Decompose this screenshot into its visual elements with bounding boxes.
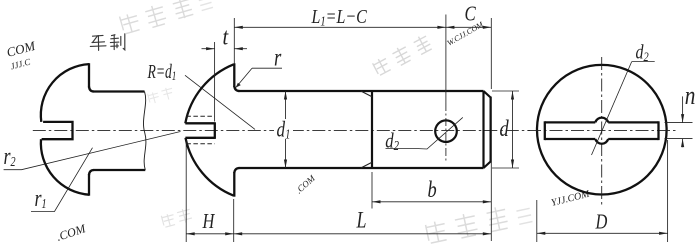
end chamfer bottom slant: [484, 162, 491, 169]
dimension d (right of middle view): [492, 90, 519, 92]
svg-text:L1=L−C: L1=L−C: [311, 5, 368, 29]
dimension b: [371, 172, 373, 209]
middle fillet bottom: [234, 168, 239, 173]
right view slot band bottom: [545, 138, 659, 140]
watermark left edge COM: [5, 38, 41, 72]
svg-text:b: b: [428, 176, 437, 203]
thread runout line: [371, 91, 373, 168]
end face: [490, 97, 492, 163]
left view shank top: [94, 90, 145, 92]
svg-text:t: t: [223, 23, 229, 50]
middle head slot hidden edges (dashed): [186, 115, 214, 117]
main axis centerline (left + middle views): [33, 129, 530, 131]
middle dome arc lower: [186, 138, 234, 196]
left view head flat face: [88, 63, 90, 87]
watermark faint near H: [161, 207, 193, 228]
left view fillet top: [89, 87, 94, 92]
dimension L: [234, 233, 492, 235]
hole projection arcs: [595, 118, 608, 123]
middle shank bottom: [239, 167, 484, 169]
hole vertical centerline + L1/C extension: [445, 15, 447, 104]
dimension L1=L-C: [234, 26, 446, 28]
cross hole d2: [435, 120, 457, 142]
watermark bottom band: [425, 200, 533, 244]
left view head slot notch: [42, 122, 73, 139]
end chamfer line: [482, 91, 484, 168]
slot right end: [657, 121, 659, 140]
left view break wavy line: [143, 92, 145, 171]
dimension D: [536, 200, 538, 242]
thread runout diagonals: [361, 91, 372, 97]
dimension C: [446, 26, 455, 29]
RIGHT VIEW: head circle: [537, 65, 667, 195]
middle head slot (solid): [185, 122, 215, 139]
svg-text:H: H: [202, 210, 216, 233]
C right extension / b,L right extension: [490, 18, 492, 89]
right view vertical centerline: [601, 57, 603, 205]
note 车制 (turned/machined) hand-drawn strokes: [90, 34, 125, 51]
LEFT VIEW: dome head outline: [41, 64, 89, 122]
left view fillet bottom: [89, 170, 94, 175]
svg-text:R=d1: R=d1: [147, 60, 177, 83]
middle head flat face: [233, 63, 235, 87]
middle shank top: [239, 90, 484, 92]
watermark top-left logo: [119, 0, 213, 35]
svg-text:L: L: [356, 209, 367, 234]
leader R=d1 to sphere center: [185, 75, 255, 129]
end chamfer top slant: [484, 91, 491, 98]
head face extension line (t / L1): [233, 18, 235, 64]
left view shank bottom: [94, 169, 146, 171]
svg-text:d: d: [500, 115, 510, 142]
dimension d1: [285, 91, 287, 168]
svg-text:n: n: [685, 82, 696, 110]
svg-text:C: C: [465, 3, 476, 26]
slot left end: [544, 121, 546, 140]
left view dome arc lower: [41, 139, 89, 195]
watermark right lower faint: [550, 189, 591, 209]
right view horizontal centerline: [528, 130, 678, 132]
watermark bottom-left COM: [55, 221, 88, 244]
dimension n: [665, 122, 693, 124]
watermark small diag COM: [294, 173, 318, 196]
watermark near C label: [446, 19, 486, 48]
middle fillet top: [234, 86, 239, 91]
leader r2: [4, 132, 181, 170]
dimension H: [185, 140, 187, 242]
dimension t: [214, 42, 216, 122]
watermark center: [372, 33, 433, 76]
leader r1: [31, 148, 93, 212]
svg-text:D: D: [595, 211, 608, 234]
MIDDLE VIEW: dome head arc upper: [185, 64, 233, 123]
watermark faint between views: [147, 86, 174, 104]
right view slot band top: [545, 121, 659, 123]
svg-text:r: r: [274, 43, 282, 71]
